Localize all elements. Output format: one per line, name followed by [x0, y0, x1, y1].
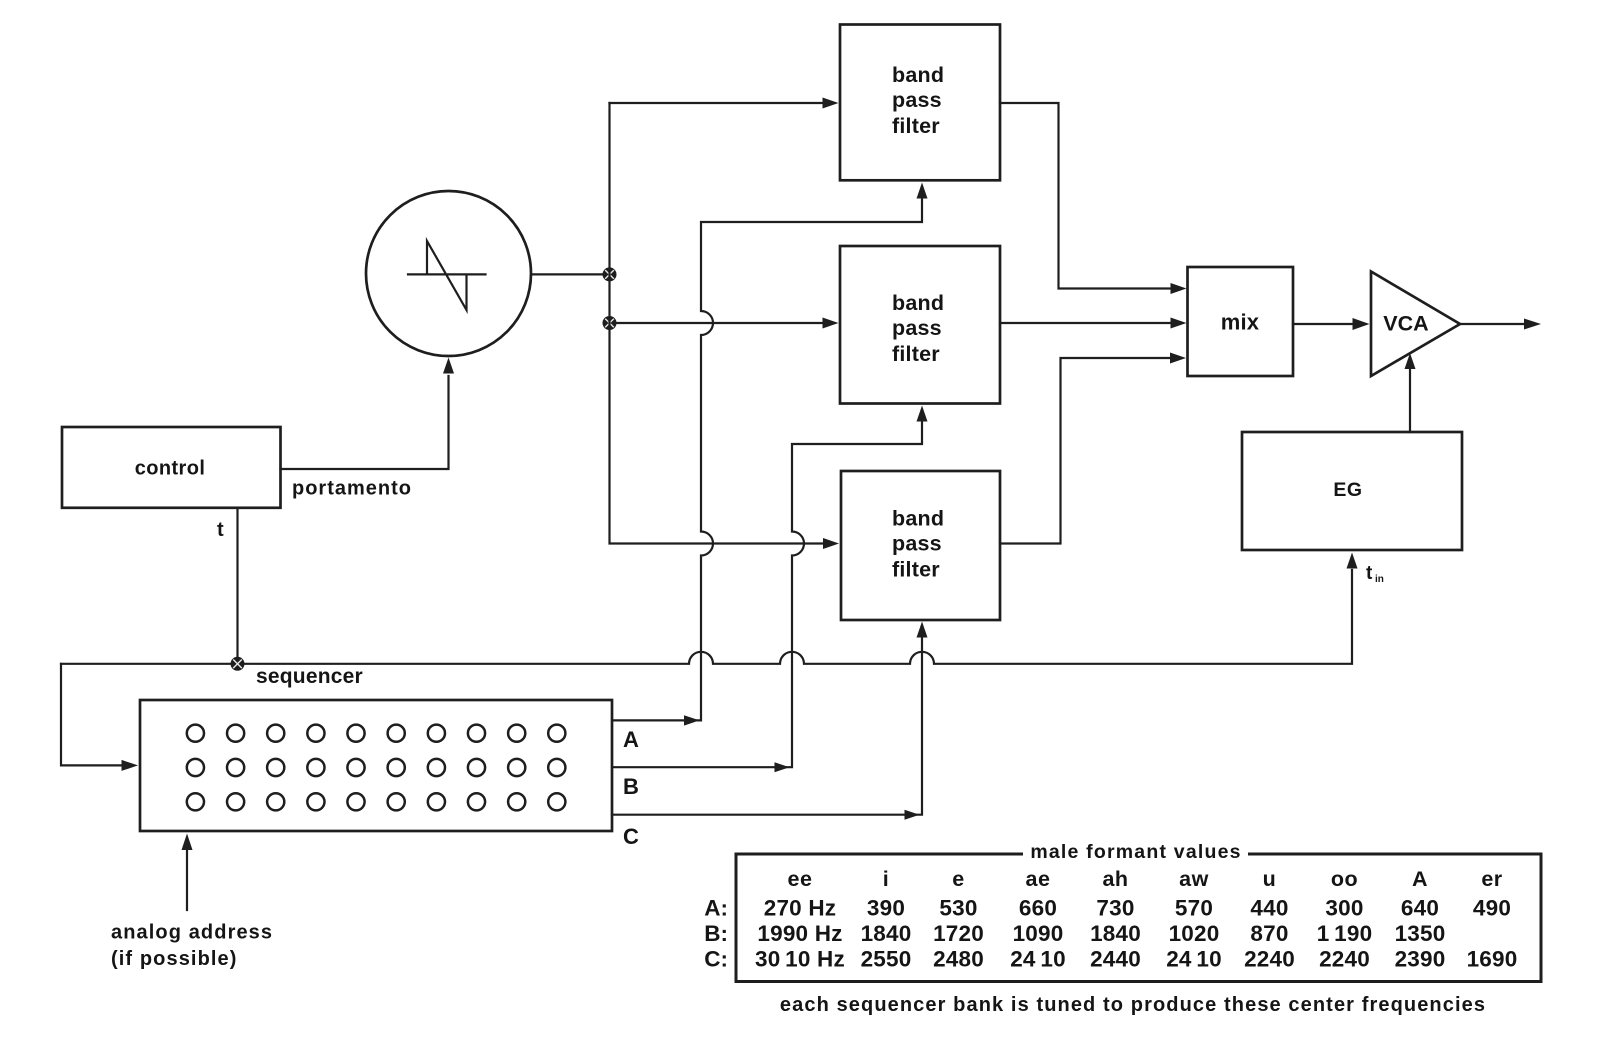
svg-text:640: 640	[1401, 896, 1439, 921]
table header row (vowels)	[788, 867, 1503, 891]
svg-text:490: 490	[1473, 896, 1511, 921]
svg-text:in: in	[1375, 574, 1384, 585]
wire VCA output	[1460, 323, 1524, 325]
svg-text:2550: 2550	[861, 947, 912, 972]
svg-text:2240: 2240	[1244, 947, 1295, 972]
arrowhead A wire corner	[684, 715, 700, 725]
sequencer trigger bus	[61, 570, 1352, 664]
svg-text:1990 Hz: 1990 Hz	[757, 921, 842, 946]
arrowhead into middle band pass filter	[823, 318, 839, 329]
svg-text:730: 730	[1096, 896, 1134, 921]
arrowhead into oscillator bottom	[443, 358, 454, 374]
svg-text:300: 300	[1325, 896, 1363, 921]
sequencer box	[140, 700, 612, 831]
arrowhead C into bottom filter bottom	[917, 622, 928, 638]
svg-text:C: C	[623, 824, 639, 849]
svg-text:pass: pass	[892, 532, 942, 556]
svg-text:1090: 1090	[1013, 921, 1064, 946]
table row B values	[704, 921, 1445, 946]
svg-text:VCA: VCA	[1383, 312, 1428, 336]
svg-text:oo: oo	[1331, 867, 1358, 891]
arrowhead into bottom band pass filter	[823, 538, 839, 549]
svg-text:A:: A:	[704, 896, 728, 921]
svg-text:pass: pass	[892, 316, 942, 340]
svg-text:1840: 1840	[1090, 921, 1141, 946]
arrowhead mix input 3	[1170, 353, 1186, 364]
svg-text:24 10: 24 10	[1010, 947, 1066, 972]
svg-text:570: 570	[1175, 896, 1213, 921]
svg-text:24 10: 24 10	[1166, 947, 1222, 972]
arrowhead bus into EG bottom	[1347, 553, 1358, 569]
svg-text:A: A	[623, 727, 639, 752]
arrowhead C wire corner	[905, 810, 920, 820]
svg-text:ah: ah	[1102, 867, 1128, 891]
svg-text:530: 530	[939, 896, 977, 921]
table row C values	[704, 947, 1517, 972]
junction node (osc output, to top filter bus)	[603, 267, 617, 281]
svg-text:EG: EG	[1333, 479, 1362, 501]
svg-text:2240: 2240	[1319, 947, 1370, 972]
svg-text:2480: 2480	[933, 947, 984, 972]
svg-text:pass: pass	[892, 88, 942, 112]
svg-text:ee: ee	[788, 867, 813, 891]
wire analog address arrow into sequencer	[186, 850, 188, 910]
oscillator VCO (sawtooth)	[366, 191, 531, 356]
arrowhead into VCA	[1353, 318, 1370, 330]
svg-text:u: u	[1263, 867, 1277, 891]
wire bottom filter output to mix	[1000, 358, 1170, 544]
wire bus left drop into sequencer	[61, 664, 121, 766]
svg-text:30 10 Hz: 30 10 Hz	[755, 947, 845, 972]
svg-text:t: t	[217, 519, 224, 541]
svg-text:aw: aw	[1179, 867, 1209, 891]
svg-text:filter: filter	[892, 114, 940, 138]
arrowhead output	[1524, 319, 1541, 330]
band pass filter 1 (top)	[840, 25, 1000, 181]
wire to middle band pass filter	[616, 322, 823, 324]
junction node (to middle filter)	[603, 316, 617, 330]
arrowhead EG into VCA bottom	[1405, 353, 1416, 369]
wire audio bus vertical and to bottom band pass filter	[610, 103, 824, 544]
wire middle filter output to mix	[1000, 322, 1171, 324]
label t in	[1366, 563, 1384, 585]
svg-text:control: control	[135, 458, 206, 480]
svg-text:B: B	[623, 774, 639, 799]
svg-text:1020: 1020	[1169, 921, 1220, 946]
control box	[62, 427, 281, 508]
svg-text:i: i	[883, 867, 889, 891]
svg-text:e: e	[952, 867, 964, 891]
svg-text:(if possible): (if possible)	[111, 948, 238, 970]
svg-text:each sequencer bank is tuned t: each sequencer bank is tuned to produce …	[780, 994, 1486, 1016]
svg-text:mix: mix	[1221, 310, 1260, 335]
formant value table frame	[736, 854, 1541, 982]
svg-text:t: t	[1366, 563, 1373, 584]
svg-text:A: A	[1412, 867, 1428, 891]
svg-text:band: band	[892, 507, 944, 531]
svg-text:1690: 1690	[1467, 947, 1518, 972]
svg-text:390: 390	[867, 896, 905, 921]
VCA amplifier triangle	[1371, 272, 1460, 377]
svg-text:270 Hz: 270 Hz	[764, 896, 837, 921]
wire portamento: control to oscillator	[281, 376, 449, 469]
arrowhead mix input 2	[1171, 318, 1187, 329]
arrowhead into top band pass filter	[823, 98, 839, 109]
svg-text:C:: C:	[704, 947, 728, 972]
sequencer bank row of step circles	[187, 759, 566, 776]
svg-text:1720: 1720	[933, 921, 984, 946]
arrowhead B into middle filter bottom	[917, 406, 928, 422]
sequencer bank row of step circles	[187, 725, 566, 742]
table row A values	[704, 896, 1511, 921]
wire sequencer row B output and riser to middle filter control	[612, 410, 922, 767]
wire EG to VCA	[1409, 368, 1411, 432]
svg-text:440: 440	[1250, 896, 1288, 921]
svg-text:band: band	[892, 63, 944, 87]
svg-text:male formant values: male formant values	[1030, 841, 1241, 863]
sequencer bank row of step circles	[187, 793, 566, 810]
svg-text:1840: 1840	[861, 921, 912, 946]
band pass filter 2 (middle)	[840, 246, 1000, 404]
arrowhead analog address	[182, 834, 193, 851]
wire sequencer row C output and riser to bottom filter control	[612, 626, 922, 815]
svg-text:portamento: portamento	[292, 478, 412, 500]
arrowhead B wire corner	[775, 762, 790, 772]
svg-text:2390: 2390	[1395, 947, 1446, 972]
svg-text:1350: 1350	[1395, 921, 1446, 946]
band pass filter 3 (bottom)	[841, 471, 1000, 620]
wire t from control to bus	[236, 508, 238, 664]
svg-text:analog address: analog address	[111, 922, 273, 944]
EG envelope generator box	[1242, 432, 1462, 550]
arrowhead A into top filter bottom	[917, 183, 928, 199]
arrowhead into sequencer left edge	[122, 760, 139, 771]
svg-text:band: band	[892, 291, 944, 315]
svg-text:2440: 2440	[1090, 947, 1141, 972]
svg-text:1 190: 1 190	[1317, 921, 1373, 946]
wire sequencer row A output and riser to top filter control	[612, 187, 922, 720]
svg-text:er: er	[1481, 867, 1502, 891]
svg-text:B:: B:	[704, 921, 728, 946]
mix block	[1188, 267, 1294, 376]
svg-text:870: 870	[1250, 921, 1288, 946]
wire mix to VCA	[1293, 323, 1352, 325]
label analog address (if possible)	[111, 922, 273, 971]
wire top filter output to mix	[1000, 103, 1171, 289]
svg-text:filter: filter	[892, 342, 940, 366]
wire to top band pass filter	[610, 102, 824, 104]
svg-text:filter: filter	[892, 558, 940, 582]
svg-text:660: 660	[1019, 896, 1057, 921]
svg-text:sequencer: sequencer	[256, 665, 363, 688]
arrowhead mix input 1	[1171, 283, 1187, 294]
svg-text:ae: ae	[1026, 867, 1051, 891]
junction node (t wire / bus)	[231, 657, 245, 671]
wire oscillator output to node A1	[531, 273, 610, 275]
